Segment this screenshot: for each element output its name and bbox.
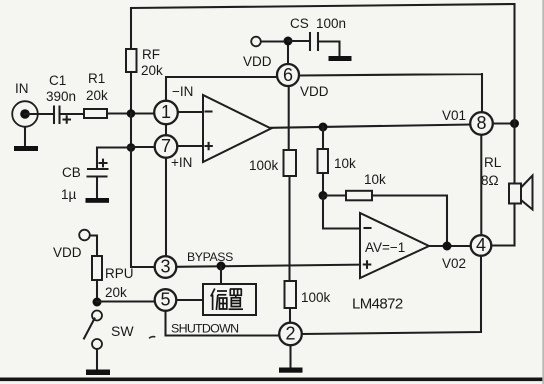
svg-text:+IN: +IN <box>171 155 192 170</box>
capacitor C1 <box>46 73 76 123</box>
svg-text:3: 3 <box>160 257 170 277</box>
junction dot output to 10k <box>319 123 328 132</box>
svg-text:1: 1 <box>161 102 171 122</box>
wire speaker to pin4 rail <box>513 204 515 246</box>
ground under pin2 <box>279 345 303 372</box>
svg-text:20k: 20k <box>105 285 127 300</box>
ink speck artifact <box>149 337 155 339</box>
svg-text:SW: SW <box>111 323 134 339</box>
wire IN to C1 <box>25 113 54 115</box>
svg-text:AV=−1: AV=−1 <box>365 240 405 255</box>
resistor 10k vertical <box>318 149 357 173</box>
V02 junction dot <box>443 242 452 251</box>
svg-text:RL: RL <box>484 155 502 170</box>
svg-text:SHUTDOWN: SHUTDOWN <box>171 322 238 336</box>
svg-text:10k: 10k <box>364 172 386 187</box>
photo bottom edge line <box>0 378 544 382</box>
svg-text:7: 7 <box>161 136 171 156</box>
wire RF bottom to node A <box>130 72 132 113</box>
svg-text:1µ: 1µ <box>61 187 77 202</box>
svg-text:20k: 20k <box>86 88 108 103</box>
input jack IN <box>12 81 38 127</box>
svg-text:5: 5 <box>160 290 170 310</box>
resistor 100k lower <box>285 281 331 308</box>
svg-text:4: 4 <box>476 235 486 255</box>
svg-text:100k: 100k <box>301 290 331 305</box>
svg-text:−IN: −IN <box>172 84 193 99</box>
svg-text:8: 8 <box>476 113 486 133</box>
capacitor CS <box>290 16 346 50</box>
op-amp U2 <box>360 213 429 278</box>
wire CS junction to CS cap <box>288 40 310 42</box>
pin 5 circle <box>155 289 177 311</box>
svg-text:C1: C1 <box>49 73 66 88</box>
wire pin6 down internal rail <box>288 86 290 150</box>
svg-text:RF: RF <box>142 47 160 62</box>
svg-text:2: 2 <box>285 324 295 344</box>
wire node B left to CB <box>97 148 131 168</box>
bias box 偏置 <box>203 284 256 315</box>
pin 8 circle <box>470 112 493 135</box>
corner junction dot <box>510 119 519 128</box>
wire pin1 top up to VDD pin6 <box>166 77 277 101</box>
wire corner node down to speaker <box>513 124 515 185</box>
svg-text:8Ω: 8Ω <box>481 173 499 188</box>
wire 10k horizontal to V02 <box>372 196 447 247</box>
pin 6 circle <box>277 64 299 86</box>
wire feedback node down to U2 inverting input <box>323 196 360 229</box>
wire feedback node to 10k horizontal <box>323 194 346 196</box>
ground under CB <box>86 178 110 203</box>
ground under switch <box>86 349 110 375</box>
svg-text:R1: R1 <box>88 71 105 86</box>
svg-text:VDD: VDD <box>300 84 329 99</box>
speaker RL <box>481 155 533 210</box>
wire RL path pin8 to pin4 <box>480 135 482 235</box>
wire pin6 right to pin8 top <box>300 74 483 113</box>
wire R1 to node A <box>107 112 154 114</box>
pin 4 circle <box>471 235 492 256</box>
bypass junction dot <box>217 262 226 271</box>
svg-text:IN: IN <box>15 81 29 96</box>
svg-text:CB: CB <box>62 165 81 180</box>
VDD terminal top <box>243 37 272 69</box>
wire C1 to R1 <box>60 113 85 115</box>
wire pin1 to pin7 <box>165 124 167 135</box>
wire right rail top <box>513 4 515 124</box>
wire U2 output to pin4 <box>429 245 471 247</box>
svg-text:390n: 390n <box>46 89 76 104</box>
svg-text:BYPASS: BYPASS <box>187 250 233 264</box>
svg-text:VDD: VDD <box>53 245 82 260</box>
wire pin3 right bypass line to U2 + input <box>176 265 360 267</box>
wire pin5 to bias box <box>176 299 204 301</box>
node A junction <box>127 109 136 118</box>
svg-text:20k: 20k <box>141 63 163 78</box>
wire 100k lower to pin2 <box>289 308 291 323</box>
wire pin1 to op-amp inverting input <box>178 111 203 113</box>
svg-text:LM4872: LM4872 <box>352 296 403 313</box>
wire rail between 100k resistors <box>288 176 290 281</box>
wire pin8 right to corner node <box>493 122 515 124</box>
ground for CS <box>329 56 352 61</box>
wire junction down to 10k <box>322 127 324 149</box>
resistor RPU <box>92 256 134 300</box>
wire pin4 bottom to pin2 <box>302 256 481 334</box>
svg-text:10k: 10k <box>334 156 356 171</box>
wire pin7 to op-amp non-inverting input <box>177 145 203 147</box>
wire pin4 right <box>491 244 514 246</box>
svg-text:VDD: VDD <box>243 54 272 69</box>
wire RF top vertical <box>130 8 132 49</box>
svg-text:RPU: RPU <box>105 266 134 281</box>
pin 1 circle <box>154 101 178 125</box>
node B junction <box>127 143 136 152</box>
capacitor CB <box>61 160 108 202</box>
switch node dot <box>93 298 102 307</box>
wire pin6 up to CS junction <box>287 41 289 64</box>
resistor RF <box>126 47 163 78</box>
wire switch node to pin5 <box>97 300 155 302</box>
ground under IN jack <box>14 127 38 151</box>
svg-text:V01: V01 <box>442 108 466 123</box>
svg-text:100n: 100n <box>316 16 346 31</box>
switch SW <box>84 311 134 350</box>
wire node A down to node B <box>130 114 132 148</box>
resistor 100k upper <box>249 150 296 176</box>
svg-text:6: 6 <box>283 65 293 85</box>
VDD terminal for RPU <box>53 230 90 260</box>
wire node B vertical down to pin 3 <box>131 148 155 268</box>
resistor R1 <box>84 71 108 118</box>
wire bypass dot down to bias box <box>220 266 222 282</box>
wire pin7 down to pin3 <box>165 158 167 257</box>
feedback node dot <box>319 191 328 200</box>
pin 3 circle <box>155 256 177 278</box>
wire top feedback rail <box>131 4 515 8</box>
wire pin5 down shutdown line to pin2 <box>166 311 280 336</box>
pin 7 circle <box>155 135 178 158</box>
op-amp U1 output wire to pin8 <box>271 125 470 128</box>
wire VDD terminal to RPU <box>90 236 97 257</box>
wire RPU to switch node <box>96 280 98 302</box>
photo right edge line <box>542 0 544 384</box>
resistor 10k horizontal <box>346 172 386 200</box>
svg-text:100k: 100k <box>249 158 279 173</box>
op-amp U1 <box>203 95 271 162</box>
wire 10k to feedback node <box>322 173 324 196</box>
junction dot CS node <box>284 37 293 46</box>
wire VDD terminal to CS junction <box>261 40 284 42</box>
svg-text:V02: V02 <box>442 256 466 271</box>
wire node B to pin 7 <box>131 146 155 148</box>
wire CS to ground <box>318 42 340 57</box>
pin 2 circle <box>279 323 302 346</box>
svg-text:CS: CS <box>290 16 309 31</box>
